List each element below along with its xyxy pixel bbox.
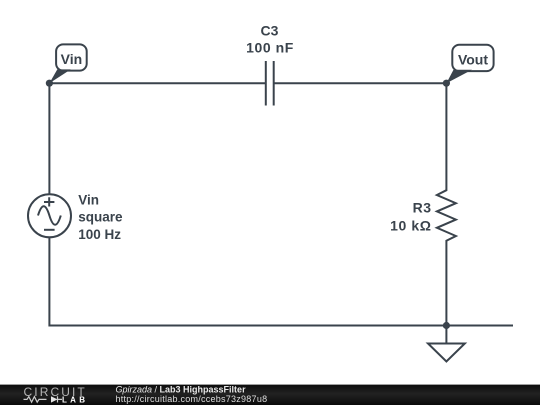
node label Vin box (49, 44, 86, 83)
svg-text:Gpirzada / Lab3 HighpassFilter: Gpirzada / Lab3 HighpassFilter (116, 384, 247, 394)
node dot Vin (46, 80, 53, 87)
wire left lower and bottom rail (49, 237, 513, 325)
voltage source V1 circle (28, 194, 71, 237)
svg-text:square: square (78, 210, 123, 225)
voltage source minus sign (44, 229, 55, 231)
ground triangle (428, 344, 465, 362)
svg-text:10 kΩ: 10 kΩ (390, 218, 431, 234)
svg-text:Vin: Vin (78, 193, 99, 208)
svg-text:R3: R3 (413, 200, 432, 216)
svg-text:http://circuitlab.com/ccebs73z: http://circuitlab.com/ccebs73z987u8 (116, 394, 268, 404)
node dot Vout (443, 80, 450, 87)
ground stub (445, 326, 447, 344)
footer bar (0, 385, 540, 405)
wire left upper: Vin node down to source V1 top (48, 83, 50, 194)
svg-text:C3: C3 (261, 23, 279, 39)
wire top-left: Vin node to C3 left plate (49, 82, 265, 84)
wire right with resistor R3 zigzag (437, 83, 456, 325)
node label Vout box (446, 45, 493, 83)
logo resistor squiggle and diode (24, 396, 63, 402)
svg-text:100 nF: 100 nF (246, 40, 294, 56)
capacitor C3 right plate (273, 61, 275, 106)
voltage source plus sign (44, 197, 54, 206)
svg-text:100 Hz: 100 Hz (78, 227, 121, 242)
voltage source sine wave (38, 206, 61, 225)
svg-text:Vin: Vin (61, 51, 83, 67)
node dot ground junction (443, 322, 450, 329)
svg-text:Vout: Vout (458, 51, 488, 67)
capacitor C3 left plate (265, 61, 267, 106)
wire top-right: C3 right plate to Vout node (274, 82, 447, 84)
svg-text:LAB: LAB (62, 395, 88, 404)
